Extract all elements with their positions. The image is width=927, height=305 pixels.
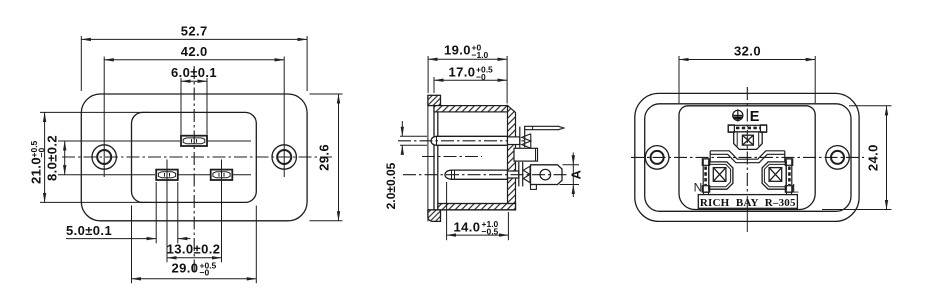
dim 17.0 +0.5/-0	[434, 79, 507, 81]
svg-text:−0.5: −0.5	[482, 227, 499, 237]
svg-text:19.0: 19.0	[444, 43, 471, 58]
lower terminal rear stub	[508, 171, 519, 178]
dim 32.0 extension lines	[678, 56, 680, 103]
mounting hole right (rear view)	[826, 146, 850, 170]
dim A extension lines	[563, 164, 580, 166]
earth contact box	[742, 135, 753, 145]
earth terminal bracket	[519, 127, 521, 149]
side view: body bottom wall (section)	[438, 204, 516, 210]
solder tab step	[531, 185, 537, 190]
svg-text:52.7: 52.7	[181, 24, 208, 39]
lower pin center line	[403, 174, 570, 176]
earth terminal well	[734, 132, 763, 150]
horizontal center line (rear view)	[631, 156, 864, 158]
dim 52.7	[81, 38, 307, 40]
neutral pin aperture (front view)	[211, 170, 233, 180]
side view: body top wall (section)	[434, 106, 508, 112]
svg-text:29.0: 29.0	[172, 261, 199, 276]
mounting hole left (rear view)	[645, 146, 669, 170]
vertical center line (rear view)	[746, 87, 748, 196]
svg-text:RICH BAY R–305: RICH BAY R–305	[700, 197, 796, 209]
neutral terminal well	[709, 162, 733, 189]
line contact box	[769, 168, 782, 182]
dim 29.0 extension lines	[131, 206, 133, 284]
dim 8.0±0.2	[64, 141, 66, 175]
front view: outer body outline	[81, 94, 307, 221]
side view: flange plate faces	[427, 95, 429, 221]
earth terminal rear stub	[508, 137, 520, 145]
divider bridge	[710, 151, 785, 159]
dim 29.0 +0.5/-0	[132, 278, 257, 280]
mounting hole left (front view)	[92, 145, 116, 169]
solder tab hole	[540, 169, 551, 180]
svg-text:42.0: 42.0	[181, 44, 208, 59]
pin row guide lines (front view)	[208, 140, 252, 142]
side view: body front face	[437, 112, 439, 204]
dim 14.0 +1.0/-0.5	[447, 234, 509, 236]
svg-text:29.6: 29.6	[317, 144, 332, 171]
slot center extension lines	[166, 160, 168, 263]
dim 6.0 extension lines	[180, 78, 182, 135]
earth pin (side view)	[431, 136, 508, 145]
neutral contact box	[713, 168, 726, 182]
brand plate	[698, 195, 797, 209]
dim 19.0 extension lines	[427, 56, 429, 93]
dim A	[572, 153, 574, 165]
dim 13.0±0.2	[167, 257, 222, 259]
earth terminal crimp serrations	[522, 134, 531, 148]
rear view: body step outline	[645, 104, 851, 212]
svg-text:E: E	[750, 109, 760, 125]
center line over brand plate	[746, 196, 748, 232]
lower terminal crimp serrations	[523, 166, 530, 182]
dim 5.0 extension lines	[155, 182, 157, 243]
part center line (side view)	[422, 156, 482, 158]
lower solder tab	[531, 165, 563, 185]
dim 24.0	[886, 106, 888, 210]
dim 32.0	[679, 59, 815, 61]
rear view: outer body outline	[635, 93, 859, 221]
svg-text:A: A	[569, 169, 584, 179]
mounting hole right (front view)	[272, 145, 296, 169]
lower terminal bracket	[518, 162, 520, 187]
earth solder lug blade	[525, 126, 564, 129]
svg-text:2.0±0.05: 2.0±0.05	[384, 162, 398, 209]
side view: flange bottom cap (section)	[428, 210, 441, 222]
dim 8.0 extension lines	[58, 140, 180, 142]
dim 6.0±0.1	[181, 80, 207, 82]
front view: inner recess outline	[132, 112, 257, 202]
dim 21.0 +0.5/-0	[44, 112, 46, 202]
svg-text:6.0±0.1: 6.0±0.1	[171, 65, 217, 80]
svg-text:14.0: 14.0	[454, 219, 481, 234]
dim 14.0 extension lines	[446, 182, 448, 240]
line/neutral pin (side view)	[445, 170, 508, 179]
dim 52.7 extension lines	[80, 36, 82, 91]
svg-text:−0: −0	[200, 268, 210, 278]
svg-text:8.0±0.2: 8.0±0.2	[45, 135, 60, 181]
svg-text:−1.0: −1.0	[472, 50, 489, 60]
line terminal well	[762, 162, 786, 189]
neutral clamp bar	[703, 159, 709, 192]
dim 19.0 +0/-1.0	[428, 58, 507, 60]
dim 2.0±0.05	[401, 121, 403, 136]
dim 42.0 extension lines	[103, 57, 105, 178]
svg-text:17.0: 17.0	[449, 65, 476, 80]
horizontal center line (front view)	[62, 156, 332, 158]
side view: flange top cap (section)	[428, 95, 441, 105]
svg-text:13.0±0.2: 13.0±0.2	[167, 242, 221, 257]
dim 21.0 extension lines	[40, 111, 150, 113]
dim 29.6 extension lines	[310, 93, 343, 95]
rear view: recess opening	[679, 106, 815, 210]
dim 24.0 extension lines	[849, 105, 892, 107]
earth terminal clamp bar	[728, 125, 766, 132]
dim 2.0 extension lines	[400, 135, 427, 137]
dim 42.0	[104, 59, 284, 61]
earth pin aperture E (front view)	[181, 136, 207, 146]
line clamp bar	[786, 159, 792, 192]
dim 5.0±0.1 leader	[66, 238, 156, 240]
svg-text:L: L	[792, 181, 799, 195]
earth symbol	[733, 109, 743, 121]
svg-text:−0: −0	[476, 72, 486, 82]
side view: body rear wall (section)	[508, 106, 516, 210]
dim 29.6	[338, 94, 340, 221]
line pin aperture (front view)	[156, 170, 178, 180]
svg-text:5.0±0.1: 5.0±0.1	[66, 223, 112, 238]
svg-text:N: N	[694, 180, 703, 194]
earth pin center line	[398, 140, 524, 142]
svg-text:32.0: 32.0	[734, 44, 761, 59]
svg-text:24.0: 24.0	[866, 144, 881, 171]
vertical center line (front view)	[193, 66, 195, 272]
terminal support block	[514, 148, 538, 161]
dim 17.0 extension line	[433, 77, 435, 93]
svg-text:21.0: 21.0	[29, 157, 44, 184]
